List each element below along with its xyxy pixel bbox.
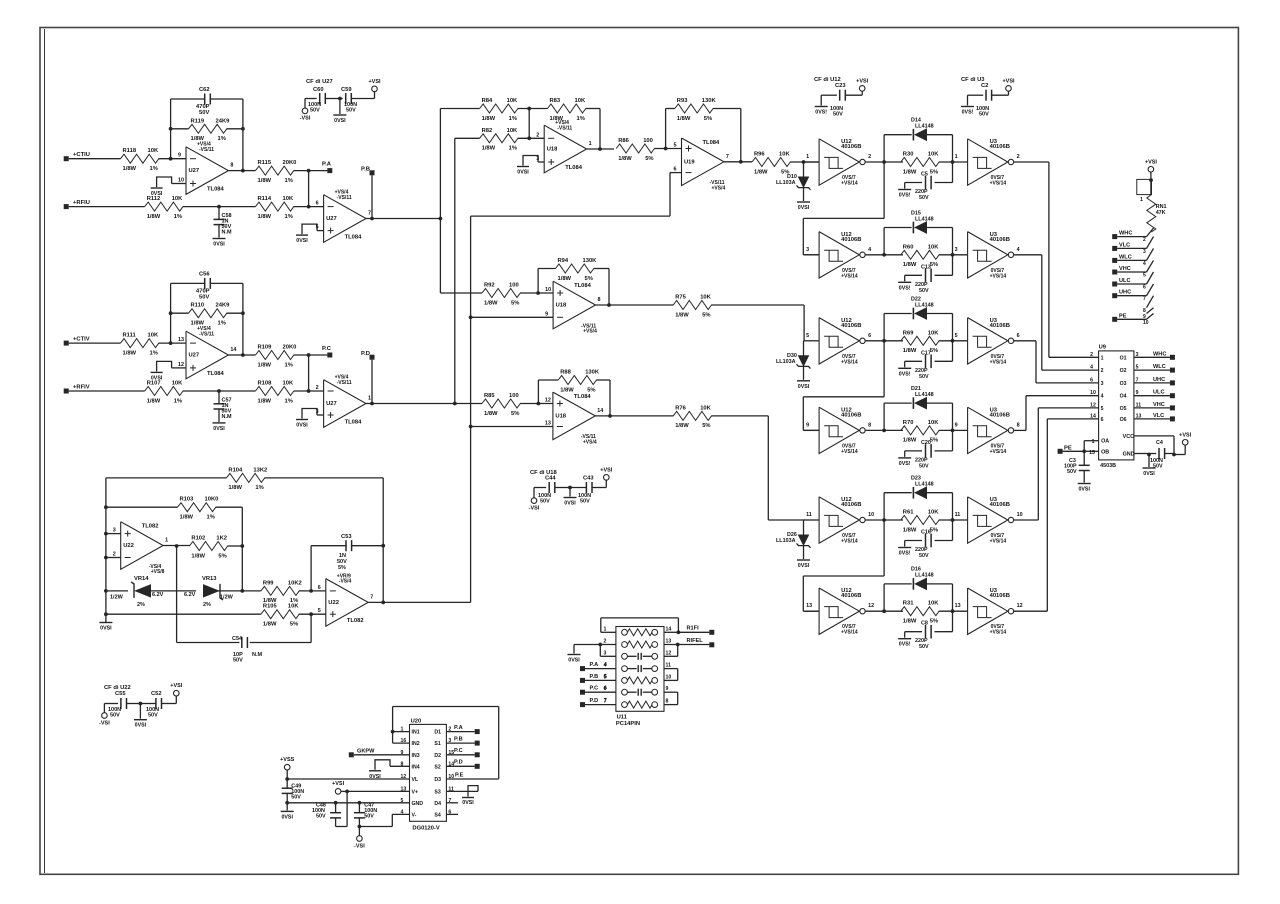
svg-text:12: 12 <box>178 362 184 368</box>
svg-text:VLC: VLC <box>1153 413 1164 419</box>
svg-text:1%: 1% <box>285 398 293 404</box>
power +VSI at U9 <box>1179 432 1192 445</box>
svg-text:C44: C44 <box>545 476 556 482</box>
svg-text:-VS/11: -VS/11 <box>199 331 214 337</box>
svg-text:10: 10 <box>868 512 874 518</box>
wire left rail U22 <box>104 478 108 622</box>
capacitor C57 <box>214 391 233 422</box>
wire C53 right vertical <box>381 544 385 605</box>
wire GND line U20 <box>287 801 409 805</box>
svg-text:4503B: 4503B <box>1100 463 1116 469</box>
svg-text:-VSI: -VSI <box>99 721 110 727</box>
svg-text:R111: R111 <box>123 333 137 339</box>
svg-text:TL084: TL084 <box>574 283 592 289</box>
svg-text:1%: 1% <box>285 178 293 184</box>
diode D22 LL4148 <box>884 296 952 341</box>
svg-text:1: 1 <box>1140 197 1143 203</box>
svg-text:3: 3 <box>806 247 809 253</box>
svg-text:10K2: 10K2 <box>288 580 302 586</box>
resistor R109 <box>256 345 297 369</box>
svg-text:1/8W: 1/8W <box>263 622 277 628</box>
svg-text:1/8W: 1/8W <box>903 169 917 175</box>
svg-text:12: 12 <box>1017 603 1023 609</box>
op-amp U18C <box>545 392 603 445</box>
svg-text:C52: C52 <box>151 691 162 697</box>
svg-text:5%: 5% <box>218 553 226 559</box>
wire VL line <box>287 778 409 780</box>
svg-text:1/8W: 1/8W <box>618 156 632 162</box>
svg-text:R69: R69 <box>903 330 914 336</box>
svg-text:-VSI: -VSI <box>354 844 365 850</box>
wire U3 row out bus to U9 pin3 <box>1013 341 1098 383</box>
svg-text:4: 4 <box>868 247 871 253</box>
svg-text:10: 10 <box>666 674 672 680</box>
svg-text:5: 5 <box>955 333 958 339</box>
wire R107 to R108 <box>183 389 256 393</box>
wire P.C node down to R108 line <box>307 355 311 393</box>
svg-text:R104: R104 <box>228 467 243 473</box>
U11 element row 4 (capacitor) <box>604 663 672 673</box>
svg-text:0VSI: 0VSI <box>281 814 293 820</box>
svg-text:1: 1 <box>955 154 958 160</box>
svg-text:R109: R109 <box>258 345 273 351</box>
svg-text:8: 8 <box>1017 422 1020 428</box>
pad ULC <box>1153 390 1175 399</box>
ground 0VSI at C58 <box>213 239 226 248</box>
svg-text:12: 12 <box>545 398 551 404</box>
svg-text:R96: R96 <box>754 152 765 158</box>
svg-text:WLC: WLC <box>1153 364 1166 370</box>
wire feedback right vertical <box>241 99 245 173</box>
svg-text:R83: R83 <box>550 98 561 104</box>
svg-text:0VSI: 0VSI <box>1078 487 1090 493</box>
resistor R94 feedback <box>538 258 611 307</box>
IC U11 PC14PIN body <box>616 627 664 727</box>
svg-text:1: 1 <box>368 396 371 402</box>
svg-text:40106B: 40106B <box>841 144 861 150</box>
svg-text:1/8W: 1/8W <box>484 411 498 417</box>
wire P.A node down to R114 line <box>307 171 311 209</box>
svg-text:10K: 10K <box>283 196 294 202</box>
power -VSI at U20 <box>354 827 365 850</box>
svg-text:P.B: P.B <box>454 737 463 743</box>
pad GKPW <box>349 748 410 757</box>
svg-text:C4: C4 <box>1156 440 1163 446</box>
resistor R75 <box>673 295 711 319</box>
svg-text:14: 14 <box>230 347 236 353</box>
capacitor C17 220P <box>905 341 953 380</box>
svg-text:U18: U18 <box>556 303 567 309</box>
svg-text:8: 8 <box>666 699 669 705</box>
wire U22A out down to C54 <box>177 546 240 643</box>
svg-text:10K: 10K <box>700 295 711 301</box>
svg-text:TL084: TL084 <box>574 394 592 400</box>
svg-text:3: 3 <box>1143 249 1146 255</box>
svg-text:S2: S2 <box>434 764 440 770</box>
op-amp U27C <box>178 326 236 379</box>
resistor R85 <box>455 393 553 417</box>
U11 element row 6 (capacitor) <box>604 686 669 696</box>
svg-text:1/8W: 1/8W <box>147 398 161 404</box>
svg-text:0VS!: 0VS! <box>899 371 911 377</box>
svg-text:+VSI: +VSI <box>1179 432 1192 438</box>
wire U18C pin13 from V3 <box>471 426 553 428</box>
op-amp U27D <box>316 375 371 428</box>
U11 element row 2 (resistor) <box>604 639 672 649</box>
svg-text:1: 1 <box>604 626 607 632</box>
svg-text:+VS/14: +VS/14 <box>990 181 1007 187</box>
svg-text:+VS/14: +VS/14 <box>841 359 858 365</box>
svg-text:O6: O6 <box>1120 417 1127 423</box>
svg-text:5%: 5% <box>930 348 938 354</box>
svg-text:6: 6 <box>1143 285 1146 291</box>
svg-text:U20: U20 <box>411 719 422 725</box>
pad P.D at U11 <box>580 698 616 707</box>
ground 0VSI under D10 <box>797 202 810 211</box>
wire U12b out <box>866 253 904 257</box>
svg-text:U27: U27 <box>326 401 337 407</box>
svg-text:U18: U18 <box>547 147 558 153</box>
svg-text:+VSI: +VSI <box>170 683 183 689</box>
svg-text:9: 9 <box>545 311 548 317</box>
svg-text:1/8W: 1/8W <box>258 398 272 404</box>
svg-text:130K: 130K <box>702 98 717 104</box>
svg-text:1%: 1% <box>255 485 263 491</box>
svg-text:1/8W: 1/8W <box>123 350 137 356</box>
svg-text:5%: 5% <box>587 387 595 393</box>
svg-text:C55: C55 <box>115 691 126 697</box>
svg-text:U9: U9 <box>1099 345 1107 351</box>
resistor R60 <box>901 244 968 268</box>
diode D16 LL4148 <box>884 567 952 612</box>
svg-text:3: 3 <box>1101 381 1104 387</box>
pad P.C <box>322 346 332 358</box>
svg-text:C20: C20 <box>921 440 931 446</box>
svg-text:2: 2 <box>1143 237 1146 243</box>
resistor R104 <box>106 467 383 602</box>
svg-text:24K9: 24K9 <box>216 303 231 309</box>
ground 0VS at C20 <box>898 458 911 467</box>
ground 0VSI rail bottom <box>99 623 112 632</box>
svg-text:13: 13 <box>666 639 672 645</box>
svg-text:2: 2 <box>604 639 607 645</box>
ground 0VSI at C57 <box>213 423 226 432</box>
svg-text:1/8W: 1/8W <box>754 169 768 175</box>
svg-text:50V: 50V <box>199 294 209 300</box>
wire V1 bus P.B <box>439 109 441 294</box>
wire V2 bus P.D <box>454 138 456 403</box>
svg-text:S1: S1 <box>434 741 440 747</box>
resistor R88 feedback <box>538 370 611 418</box>
zener D30 LL103A <box>776 341 811 380</box>
svg-text:10K0: 10K0 <box>205 497 219 503</box>
zener VR14 <box>106 576 196 608</box>
svg-text:0VSI: 0VSI <box>213 426 225 432</box>
svg-text:100: 100 <box>643 138 653 144</box>
svg-text:WLC: WLC <box>1119 254 1132 260</box>
svg-text:1%: 1% <box>509 146 517 152</box>
wire U22B out to V3 <box>368 601 470 603</box>
svg-text:PE: PE <box>1064 445 1072 451</box>
svg-text:6.2V: 6.2V <box>184 592 196 598</box>
svg-text:10: 10 <box>1143 320 1149 326</box>
svg-text:2: 2 <box>1101 368 1104 374</box>
svg-text:40106B: 40106B <box>990 237 1010 243</box>
svg-text:1/8W: 1/8W <box>484 300 498 306</box>
svg-text:N.M: N.M <box>252 652 263 658</box>
wire U3 row out bus to U9 pin5 <box>1013 408 1098 520</box>
wire U11 pins 9-8 tie <box>664 692 678 704</box>
ground 0VS at C13 <box>898 282 911 291</box>
svg-text:1/8W: 1/8W <box>482 116 496 122</box>
RN1 common pin box <box>1137 179 1152 203</box>
capacitor C49 <box>282 779 305 805</box>
svg-text:0VS!: 0VS! <box>899 285 911 291</box>
svg-text:+VS/14: +VS/14 <box>841 449 858 455</box>
wire U11 pin1 top loop <box>601 618 681 634</box>
svg-text:TL082: TL082 <box>142 524 159 530</box>
pad VLC <box>1153 413 1175 422</box>
wire V- line U20 <box>359 814 409 826</box>
resistor network RN1 47K <box>1147 195 1167 232</box>
pad P.A at U11 <box>580 662 616 671</box>
RN1 ladder taps <box>1143 228 1154 326</box>
svg-text:GND: GND <box>412 801 424 807</box>
svg-text:1/8W: 1/8W <box>675 423 689 429</box>
svg-text:+VS/14: +VS/14 <box>990 359 1007 365</box>
svg-text:UHC: UHC <box>1119 290 1131 296</box>
svg-text:1/8W: 1/8W <box>228 485 242 491</box>
svg-text:0VSI: 0VSI <box>334 118 346 124</box>
svg-text:5%: 5% <box>511 300 519 306</box>
wire V+ line U20 <box>345 790 409 794</box>
IC U9 4503B <box>1090 345 1141 470</box>
svg-text:4: 4 <box>604 662 607 668</box>
svg-text:R61: R61 <box>903 510 914 516</box>
wire VCC to +VSI <box>1134 436 1185 457</box>
svg-text:5: 5 <box>318 608 321 614</box>
svg-text:U19: U19 <box>684 159 695 165</box>
svg-text:R112: R112 <box>147 196 161 202</box>
svg-text:IN4: IN4 <box>412 764 420 770</box>
svg-text:2: 2 <box>1090 352 1093 358</box>
svg-text:TL084: TL084 <box>345 419 363 425</box>
svg-text:4: 4 <box>1090 365 1093 371</box>
wire U11 pin14 to RIFI pad <box>664 631 709 633</box>
svg-text:0VSI: 0VSI <box>517 170 529 176</box>
resistor R30 <box>901 152 968 176</box>
wire and pad P.B at U20 <box>446 737 479 746</box>
svg-text:10K: 10K <box>928 152 939 158</box>
svg-text:6: 6 <box>868 333 871 339</box>
svg-text:1%: 1% <box>207 515 215 521</box>
svg-text:6: 6 <box>1101 417 1104 423</box>
pad PE <box>1058 445 1085 454</box>
svg-text:D3: D3 <box>434 777 441 783</box>
svg-text:14: 14 <box>1090 413 1096 419</box>
wire and pad P.C at U20 <box>446 748 479 757</box>
svg-text:S3: S3 <box>434 789 440 795</box>
svg-text:1/8W: 1/8W <box>903 438 917 444</box>
pad P.D <box>361 351 375 404</box>
svg-text:1/8W: 1/8W <box>903 348 917 354</box>
wire U20 P.E loop to IN1 IN2 <box>391 707 499 780</box>
svg-text:1: 1 <box>1092 439 1095 445</box>
svg-text:CF di U27: CF di U27 <box>306 79 333 85</box>
svg-text:1/8W: 1/8W <box>482 146 496 152</box>
power +VSI at U20 <box>332 781 347 794</box>
svg-text:-VSI: -VSI <box>529 506 540 512</box>
svg-text:50V: 50V <box>979 112 989 118</box>
svg-text:6: 6 <box>1090 377 1093 383</box>
svg-text:D4: D4 <box>434 801 441 807</box>
svg-text:24K9: 24K9 <box>216 118 231 124</box>
ground 0VS at C16 <box>898 548 911 557</box>
wire U18B pin9 from V3 <box>471 316 553 318</box>
svg-text:GND: GND <box>1123 452 1135 458</box>
svg-text:TL082: TL082 <box>347 618 364 624</box>
ground 0VSI at U27A pin10 <box>151 177 186 197</box>
wire and pad P.D at U20 <box>446 760 479 769</box>
decoupling CF di U12 <box>814 77 869 118</box>
svg-text:+VS/14: +VS/14 <box>841 630 858 636</box>
schmitt inverter U3c <box>955 318 1020 366</box>
svg-text:0VSI: 0VSI <box>462 800 474 806</box>
svg-text:50V: 50V <box>919 644 929 650</box>
pad P.B at U11 <box>580 674 616 683</box>
svg-text:R115: R115 <box>258 160 272 166</box>
wire OA OB strobe with PE <box>1082 439 1098 456</box>
svg-text:O4: O4 <box>1120 394 1127 400</box>
svg-text:OB: OB <box>1101 449 1109 455</box>
pad PE at RN1 <box>1112 313 1146 322</box>
svg-text:10K: 10K <box>507 98 518 104</box>
pad VLC at RN1 <box>1112 242 1146 251</box>
svg-text:50V: 50V <box>919 195 929 201</box>
svg-text:1: 1 <box>806 154 809 160</box>
wire R112 to R114 <box>183 205 256 209</box>
svg-text:C8: C8 <box>921 621 928 627</box>
svg-text:50V: 50V <box>540 499 550 505</box>
svg-text:130K: 130K <box>585 370 600 376</box>
svg-text:P.C: P.C <box>590 686 599 692</box>
svg-text:10K: 10K <box>148 333 159 339</box>
pad R1FI <box>687 626 715 635</box>
svg-text:+VS/14: +VS/14 <box>841 273 858 279</box>
wire R96 to U12 row1 <box>790 160 819 164</box>
resistor R114 <box>256 196 294 220</box>
svg-text:+VSI: +VSI <box>1145 159 1158 165</box>
svg-text:LL4148: LL4148 <box>915 302 934 308</box>
wire U27D out (P.D net) <box>366 402 457 406</box>
wire U3 row out bus to U9 pin4 <box>1013 396 1098 431</box>
svg-text:5: 5 <box>1143 273 1146 279</box>
svg-text:1/2W: 1/2W <box>110 595 124 601</box>
svg-text:P.D: P.D <box>454 760 463 766</box>
svg-text:1/8W: 1/8W <box>903 262 917 268</box>
svg-text:VL: VL <box>412 777 419 783</box>
svg-text:LL103A: LL103A <box>776 359 796 365</box>
svg-text:R110: R110 <box>191 303 205 309</box>
svg-text:2: 2 <box>536 132 539 138</box>
svg-text:1%: 1% <box>285 214 293 220</box>
svg-text:6: 6 <box>318 585 321 591</box>
svg-text:10K: 10K <box>575 98 586 104</box>
svg-text:0VS!: 0VS! <box>899 642 911 648</box>
pad ULC at RN1 <box>1112 278 1146 287</box>
svg-text:1/8W: 1/8W <box>123 166 137 172</box>
svg-text:130K: 130K <box>583 258 598 264</box>
svg-text:0VSI: 0VSI <box>798 384 810 390</box>
svg-text:LL4148: LL4148 <box>915 482 934 488</box>
capacitor C5 220P <box>905 162 953 201</box>
zener D26 LL103A <box>776 520 811 559</box>
svg-text:10K: 10K <box>700 405 711 411</box>
svg-text:5%: 5% <box>930 619 938 625</box>
svg-text:R99: R99 <box>263 580 274 586</box>
svg-text:50V: 50V <box>233 658 243 664</box>
svg-text:R31: R31 <box>903 601 914 607</box>
svg-text:6: 6 <box>604 686 607 692</box>
svg-text:2%: 2% <box>203 602 211 608</box>
svg-text:R93: R93 <box>677 98 688 104</box>
svg-text:TL084: TL084 <box>565 165 583 171</box>
svg-text:+VS/14: +VS/14 <box>990 539 1007 545</box>
svg-text:11: 11 <box>955 512 961 518</box>
svg-text:0VS!: 0VS! <box>815 110 827 116</box>
svg-text:5%: 5% <box>585 276 593 282</box>
resistor R83 <box>518 98 586 122</box>
svg-text:6.2V: 6.2V <box>152 592 164 598</box>
wire R111 to U27 pin13 <box>159 341 187 345</box>
capacitor C20 220P <box>905 430 953 469</box>
svg-text:1%: 1% <box>218 136 226 142</box>
svg-text:0VS!: 0VS! <box>962 110 974 116</box>
schmitt inverter U3e <box>955 497 1023 545</box>
svg-text:10K: 10K <box>283 381 294 387</box>
svg-text:C54: C54 <box>232 636 243 642</box>
svg-text:R1FI: R1FI <box>687 626 700 632</box>
resistor R108 <box>256 381 294 405</box>
wire V3 bus triangle <box>469 173 682 603</box>
wire +VSI to RN1 <box>1149 172 1153 195</box>
resistor R110 <box>171 303 243 327</box>
svg-text:5%: 5% <box>930 169 938 175</box>
decoupling CF di U3 <box>961 77 1015 118</box>
svg-text:50V: 50V <box>199 110 209 116</box>
svg-text:U27: U27 <box>189 353 200 359</box>
pad UHC at RN1 <box>1112 290 1146 299</box>
svg-text:P.D: P.D <box>361 351 370 357</box>
pad +RFIV input <box>64 385 145 394</box>
svg-text:8: 8 <box>230 163 233 169</box>
svg-text:D1: D1 <box>434 730 441 736</box>
svg-text:50V: 50V <box>346 108 356 114</box>
wire U18B out <box>596 304 674 306</box>
svg-text:C2: C2 <box>981 83 988 89</box>
svg-text:50V: 50V <box>291 795 301 801</box>
capacitor C53 <box>311 534 383 591</box>
schmitt inverter U12e <box>804 497 875 545</box>
svg-text:0VSI: 0VSI <box>296 238 308 244</box>
svg-text:P.C: P.C <box>454 748 463 754</box>
svg-text:14: 14 <box>666 626 672 632</box>
diode D23 LL4148 <box>884 476 952 521</box>
svg-text:R103: R103 <box>180 497 195 503</box>
svg-text:50V: 50V <box>364 814 374 820</box>
svg-text:10: 10 <box>545 287 551 293</box>
svg-text:+CTIV: +CTIV <box>73 337 90 343</box>
